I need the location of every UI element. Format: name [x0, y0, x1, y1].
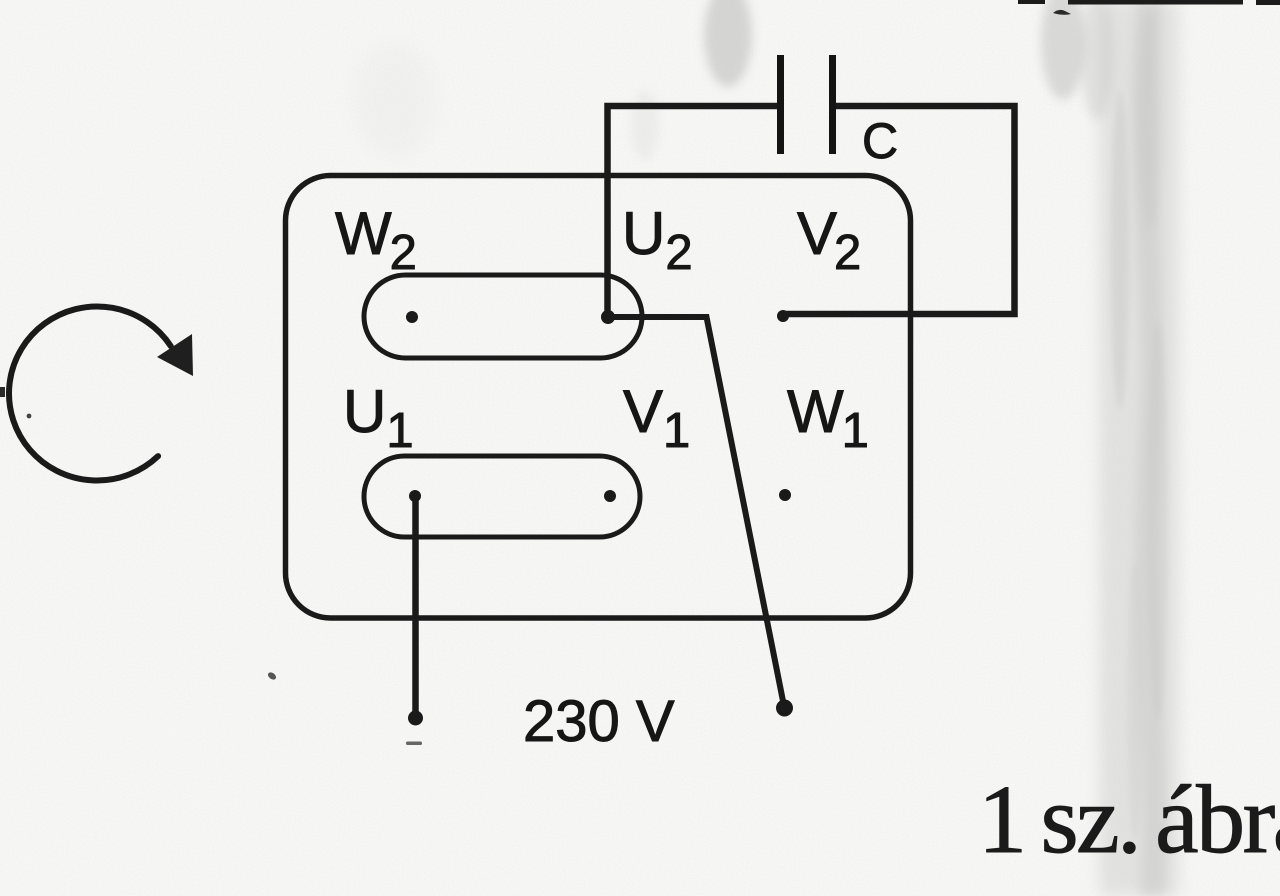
terminal W1: [779, 489, 791, 501]
terminal W2: [406, 311, 418, 323]
link bar W2-U2: [364, 275, 642, 358]
supply terminal N: [408, 711, 423, 726]
terminal V1: [604, 490, 616, 502]
svg-text:230 V: 230 V: [523, 689, 675, 754]
supply terminal L: [776, 700, 793, 717]
terminal V2: [777, 310, 789, 322]
motor terminal box: [286, 176, 911, 619]
svg-text:C: C: [862, 113, 898, 169]
capacitor C: [781, 55, 833, 154]
wire U2 to supply terminal L: [608, 317, 784, 706]
wire U2 to capacitor left plate: [608, 106, 778, 317]
terminal U1: [409, 490, 421, 502]
terminal U2: [601, 310, 615, 324]
svg-text:1 sz. ábra: 1 sz. ábra: [978, 766, 1280, 874]
link bar U1-V1: [364, 456, 640, 537]
wire U1 to supply terminal N: [412, 496, 419, 716]
rotation direction arrow: [9, 306, 193, 480]
wire capacitor right plate to V2: [783, 106, 1015, 314]
